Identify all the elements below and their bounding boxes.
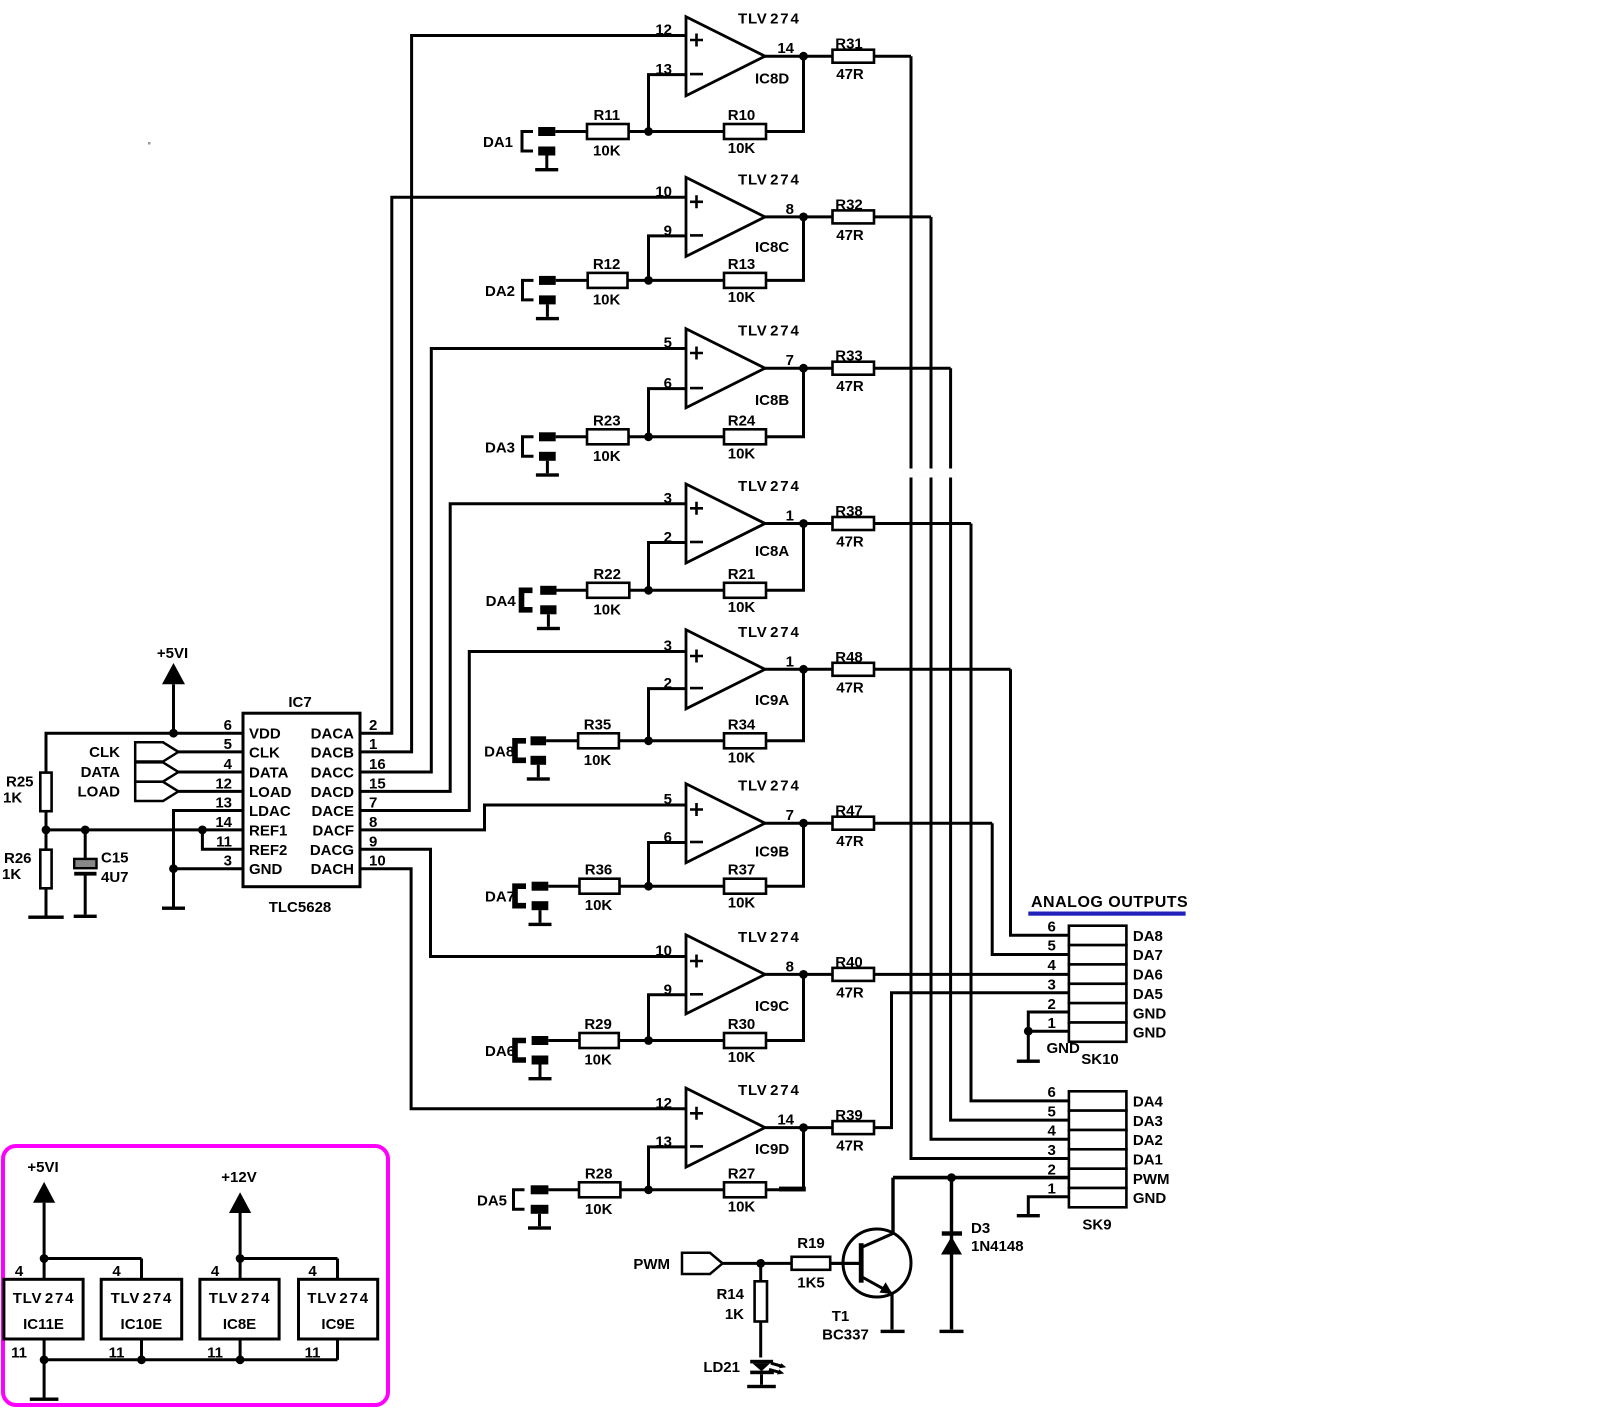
svg-text:R14: R14 xyxy=(716,1286,744,1303)
svg-text:BC337: BC337 xyxy=(822,1327,869,1344)
svg-text:13: 13 xyxy=(655,1133,672,1150)
svg-text:8: 8 xyxy=(786,201,794,218)
svg-text:47R: 47R xyxy=(836,534,864,551)
svg-text:2: 2 xyxy=(664,675,672,692)
svg-text:DACF: DACF xyxy=(312,822,354,839)
svg-text:10K: 10K xyxy=(585,897,613,914)
svg-text:1K: 1K xyxy=(725,1306,744,1323)
svg-text:IC9D: IC9D xyxy=(755,1141,789,1158)
svg-text:5: 5 xyxy=(1048,1103,1056,1120)
svg-text:10: 10 xyxy=(369,853,386,870)
svg-text:D3: D3 xyxy=(971,1220,990,1237)
svg-text:11: 11 xyxy=(11,1345,27,1362)
svg-text:1K5: 1K5 xyxy=(797,1275,825,1292)
svg-text:DA8: DA8 xyxy=(1133,928,1163,945)
svg-text:11: 11 xyxy=(305,1345,321,1362)
svg-text:R28: R28 xyxy=(585,1165,613,1182)
svg-text:DATA: DATA xyxy=(81,764,121,781)
svg-text:8: 8 xyxy=(786,958,794,975)
svg-text:R47: R47 xyxy=(835,803,863,820)
svg-text:IC11E: IC11E xyxy=(23,1316,64,1333)
svg-text:R48: R48 xyxy=(835,649,863,666)
svg-text:IC10E: IC10E xyxy=(121,1316,163,1333)
svg-text:+5VI: +5VI xyxy=(27,1159,58,1176)
svg-text:IC8A: IC8A xyxy=(755,543,789,560)
svg-text:10K: 10K xyxy=(728,1049,756,1066)
svg-text:5: 5 xyxy=(664,335,672,352)
svg-text:DA7: DA7 xyxy=(485,889,515,906)
svg-text:GND: GND xyxy=(1047,1040,1081,1057)
svg-text:7: 7 xyxy=(369,795,377,812)
svg-text:9: 9 xyxy=(664,222,672,239)
svg-text:DA4: DA4 xyxy=(486,593,517,610)
svg-text:PWM: PWM xyxy=(1133,1171,1170,1188)
svg-text:GND: GND xyxy=(1133,1190,1167,1207)
svg-text:SK10: SK10 xyxy=(1081,1051,1119,1068)
svg-text:CLK: CLK xyxy=(89,744,120,761)
svg-text:GND: GND xyxy=(1133,1005,1167,1022)
svg-text:DA4: DA4 xyxy=(1133,1094,1164,1111)
svg-text:6: 6 xyxy=(1048,918,1056,935)
svg-text:CLK: CLK xyxy=(249,744,280,761)
svg-text:R34: R34 xyxy=(728,716,756,733)
svg-text:9: 9 xyxy=(369,833,377,850)
svg-text:+5VI: +5VI xyxy=(157,645,188,662)
svg-text:DA5: DA5 xyxy=(1133,986,1163,1003)
svg-text:10K: 10K xyxy=(728,140,756,157)
svg-text:1: 1 xyxy=(786,653,794,670)
svg-text:IC9E: IC9E xyxy=(321,1316,354,1333)
svg-text:10K: 10K xyxy=(728,599,756,616)
svg-text:R33: R33 xyxy=(835,348,863,365)
svg-text:1: 1 xyxy=(1048,1015,1056,1032)
svg-text:R11: R11 xyxy=(593,107,620,124)
svg-text:3: 3 xyxy=(1048,976,1056,993)
svg-text:14: 14 xyxy=(777,40,794,57)
svg-text:11: 11 xyxy=(216,833,232,850)
svg-text:4U7: 4U7 xyxy=(101,869,129,886)
svg-text:10K: 10K xyxy=(593,448,621,465)
svg-text:+12V: +12V xyxy=(221,1169,256,1186)
svg-text:10K: 10K xyxy=(728,445,756,462)
svg-text:10K: 10K xyxy=(728,895,756,912)
svg-text:DA2: DA2 xyxy=(1133,1132,1163,1149)
svg-text:DA7: DA7 xyxy=(1133,947,1163,964)
svg-text:47R: 47R xyxy=(836,378,864,395)
svg-text:R35: R35 xyxy=(584,716,612,733)
svg-text:GND: GND xyxy=(1133,1025,1167,1042)
svg-text:GND: GND xyxy=(249,861,283,878)
svg-text:1K: 1K xyxy=(3,790,22,807)
svg-text:DATA: DATA xyxy=(249,765,289,782)
svg-text:VDD: VDD xyxy=(249,726,281,743)
svg-text:10K: 10K xyxy=(584,752,612,769)
svg-text:47R: 47R xyxy=(836,66,864,83)
svg-text:6: 6 xyxy=(664,829,672,846)
svg-text:6: 6 xyxy=(1048,1084,1056,1101)
svg-text:2: 2 xyxy=(369,717,377,734)
svg-text:DACD: DACD xyxy=(311,784,354,801)
svg-text:R24: R24 xyxy=(728,412,756,429)
svg-text:4: 4 xyxy=(224,756,233,773)
svg-text:5: 5 xyxy=(1048,938,1056,955)
svg-text:R31: R31 xyxy=(835,36,863,53)
svg-text:10K: 10K xyxy=(728,289,756,306)
svg-text:C15: C15 xyxy=(101,850,129,867)
svg-text:DA6: DA6 xyxy=(485,1043,515,1060)
svg-text:9: 9 xyxy=(664,981,672,998)
svg-text:13: 13 xyxy=(215,795,232,812)
svg-text:1: 1 xyxy=(369,736,377,753)
svg-text:R39: R39 xyxy=(835,1107,863,1124)
svg-text:IC8E: IC8E xyxy=(223,1316,256,1333)
svg-text:5: 5 xyxy=(664,791,672,808)
svg-text:10: 10 xyxy=(655,183,672,200)
svg-text:10K: 10K xyxy=(593,601,621,618)
svg-text:6: 6 xyxy=(224,717,232,734)
svg-text:7: 7 xyxy=(786,807,794,824)
svg-text:DACB: DACB xyxy=(311,744,354,761)
svg-text:16: 16 xyxy=(369,756,386,773)
svg-text:1: 1 xyxy=(786,508,794,525)
svg-text:13: 13 xyxy=(655,61,672,78)
svg-text:R13: R13 xyxy=(728,256,756,273)
svg-text:1N4148: 1N4148 xyxy=(971,1238,1024,1255)
svg-text:R10: R10 xyxy=(728,107,756,124)
svg-text:8: 8 xyxy=(369,814,377,831)
svg-text:2: 2 xyxy=(1048,996,1056,1013)
svg-text:47R: 47R xyxy=(836,679,864,696)
svg-text:T1: T1 xyxy=(832,1308,850,1325)
svg-text:LDAC: LDAC xyxy=(249,803,291,820)
svg-text:R40: R40 xyxy=(835,954,863,971)
svg-text:4: 4 xyxy=(1048,1123,1057,1140)
svg-text:R38: R38 xyxy=(835,503,863,520)
svg-text:10K: 10K xyxy=(585,1201,613,1218)
svg-text:3: 3 xyxy=(1048,1142,1056,1159)
svg-text:DACE: DACE xyxy=(311,803,354,820)
svg-text:DA1: DA1 xyxy=(1133,1152,1163,1169)
svg-text:LOAD: LOAD xyxy=(249,784,292,801)
svg-text:ANALOG OUTPUTS: ANALOG OUTPUTS xyxy=(1031,894,1188,911)
svg-text:10K: 10K xyxy=(593,143,621,160)
svg-text:R25: R25 xyxy=(6,774,34,791)
svg-text:R19: R19 xyxy=(797,1235,825,1252)
svg-text:R12: R12 xyxy=(593,256,621,273)
svg-text:3: 3 xyxy=(224,853,232,870)
svg-text:6: 6 xyxy=(664,375,672,392)
svg-text:14: 14 xyxy=(777,1112,794,1129)
svg-text:DA6: DA6 xyxy=(1133,967,1163,984)
svg-text:IC8B: IC8B xyxy=(755,392,789,409)
svg-text:IC9A: IC9A xyxy=(755,692,789,709)
svg-text:R32: R32 xyxy=(835,196,863,213)
svg-text:DA3: DA3 xyxy=(485,439,515,456)
svg-text:4: 4 xyxy=(15,1263,24,1280)
svg-text:3: 3 xyxy=(664,490,672,507)
svg-text:IC8D: IC8D xyxy=(755,71,789,88)
svg-text:10K: 10K xyxy=(728,1198,756,1215)
svg-text:DACA: DACA xyxy=(311,726,354,743)
svg-text:11: 11 xyxy=(207,1345,223,1362)
svg-text:DACG: DACG xyxy=(310,842,354,859)
svg-text:DACH: DACH xyxy=(311,861,354,878)
svg-text:R30: R30 xyxy=(728,1016,756,1033)
svg-text:1: 1 xyxy=(1048,1181,1056,1198)
svg-text:10K: 10K xyxy=(584,1052,612,1069)
svg-text:4: 4 xyxy=(1048,957,1057,974)
svg-text:R21: R21 xyxy=(728,566,756,583)
svg-text:R22: R22 xyxy=(593,566,621,583)
svg-text:47R: 47R xyxy=(836,227,864,244)
svg-text:R26: R26 xyxy=(4,850,32,867)
svg-text:11: 11 xyxy=(109,1345,125,1362)
svg-text:12: 12 xyxy=(655,1095,672,1112)
svg-text:47R: 47R xyxy=(836,833,864,850)
svg-text:DA8: DA8 xyxy=(484,743,514,760)
svg-text:R27: R27 xyxy=(728,1165,756,1182)
svg-text:IC9B: IC9B xyxy=(755,844,789,861)
svg-text:47R: 47R xyxy=(836,1138,864,1155)
svg-text:LOAD: LOAD xyxy=(78,783,121,800)
svg-text:12: 12 xyxy=(215,775,232,792)
svg-text:PWM: PWM xyxy=(633,1256,670,1273)
svg-text:4: 4 xyxy=(211,1263,220,1280)
svg-text:IC7: IC7 xyxy=(288,694,311,711)
svg-text:14: 14 xyxy=(215,814,232,831)
svg-text:DA1: DA1 xyxy=(483,134,513,151)
svg-text:1K: 1K xyxy=(2,866,21,883)
svg-text:10K: 10K xyxy=(593,291,621,308)
svg-text:DA3: DA3 xyxy=(1133,1113,1163,1130)
svg-text:TLC5628: TLC5628 xyxy=(269,899,332,916)
svg-text:DACC: DACC xyxy=(311,765,354,782)
svg-text:R37: R37 xyxy=(728,862,756,879)
svg-text:SK9: SK9 xyxy=(1082,1216,1111,1233)
svg-text:R23: R23 xyxy=(593,412,621,429)
svg-text:10K: 10K xyxy=(728,749,756,766)
svg-text:REF2: REF2 xyxy=(249,842,287,859)
svg-text:R29: R29 xyxy=(584,1016,612,1033)
svg-text:3: 3 xyxy=(664,638,672,655)
svg-text:R36: R36 xyxy=(585,862,613,879)
svg-text:7: 7 xyxy=(786,352,794,369)
svg-text:REF1: REF1 xyxy=(249,822,287,839)
svg-text:10: 10 xyxy=(655,943,672,960)
svg-text:DA2: DA2 xyxy=(485,283,515,300)
svg-text:IC8C: IC8C xyxy=(755,239,789,256)
svg-text:LD21: LD21 xyxy=(703,1359,740,1376)
svg-text:4: 4 xyxy=(308,1263,317,1280)
svg-text:5: 5 xyxy=(224,736,232,753)
svg-text:4: 4 xyxy=(112,1263,121,1280)
svg-text:15: 15 xyxy=(369,775,386,792)
svg-text:47R: 47R xyxy=(836,984,864,1001)
svg-text:12: 12 xyxy=(655,22,672,39)
svg-text:IC9C: IC9C xyxy=(755,998,789,1015)
svg-text:DA5: DA5 xyxy=(477,1192,507,1209)
svg-text:2: 2 xyxy=(664,529,672,546)
